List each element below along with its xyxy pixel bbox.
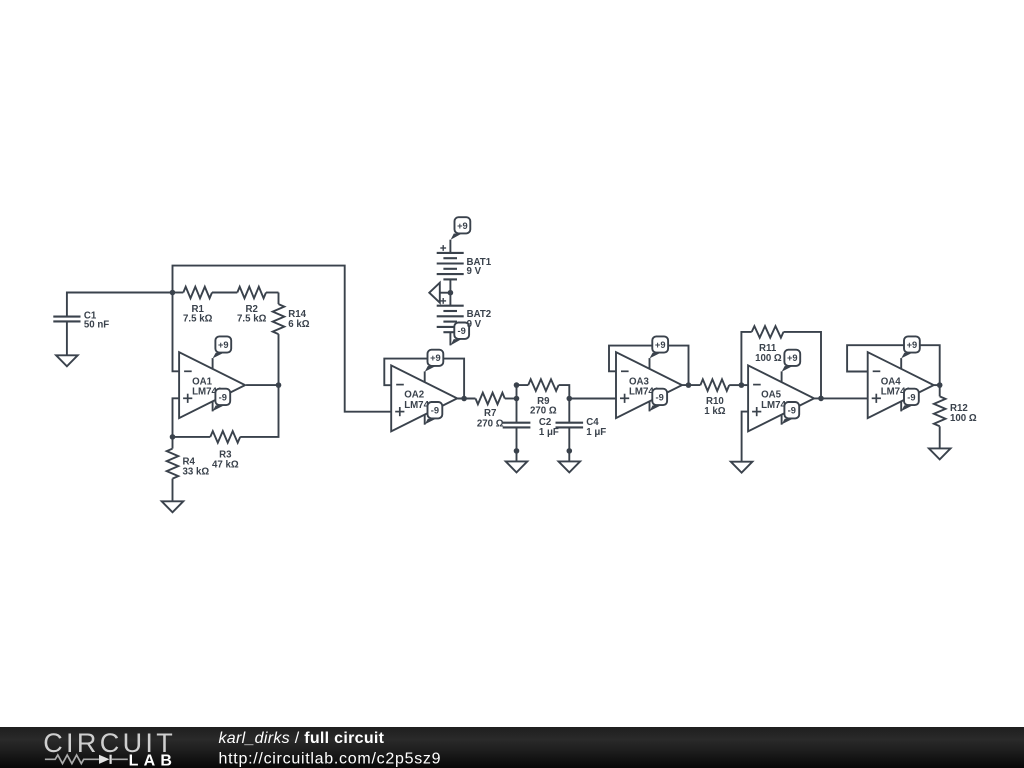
svg-text:1 kΩ: 1 kΩ: [704, 406, 725, 417]
resistor R9: [528, 379, 558, 391]
ground below C1: [56, 355, 78, 366]
net flag at battery mid node: [429, 283, 440, 303]
svg-text:7.5 kΩ: 7.5 kΩ: [237, 314, 267, 325]
footer bar: [0, 727, 1024, 768]
net flag +9 on OA3: [649, 358, 651, 369]
resistor R2: [237, 287, 266, 299]
ground below R12: [929, 448, 951, 459]
junction node OA2 out: [461, 396, 467, 402]
svg-text:1 μF: 1 μF: [539, 427, 559, 438]
junction node OA3 out: [686, 382, 692, 388]
wire node C to OA3 + input: [569, 398, 616, 400]
resistor R1: [173, 292, 184, 294]
capacitor C1: [53, 316, 80, 318]
svg-text:9 V: 9 V: [467, 319, 482, 330]
net flag -9 below BAT2: [451, 339, 462, 345]
resistor R7: [476, 393, 505, 405]
net flag -9 on OA2: [424, 415, 426, 425]
logo resistor-diode glyph: [45, 755, 99, 764]
svg-text:+9: +9: [907, 340, 918, 350]
svg-text:+9: +9: [655, 340, 666, 350]
op-amp OA3: [616, 352, 682, 418]
svg-text:+9: +9: [457, 221, 468, 231]
svg-text:100 Ω: 100 Ω: [950, 413, 977, 424]
resistor R14: [278, 293, 280, 305]
svg-text:+9: +9: [787, 353, 798, 363]
battery BAT2: [437, 305, 464, 307]
wire mid node to BAT2: [449, 293, 451, 306]
wire OA5 + input to ground: [742, 412, 749, 462]
op-amp OA2: [391, 365, 457, 431]
resistor R10: [700, 379, 729, 391]
resistor R3: [173, 436, 211, 438]
junction node C: [567, 396, 573, 402]
ground at OA5 + input: [731, 462, 753, 473]
wire OA1 output: [246, 384, 278, 386]
junction node C4 gnd: [567, 448, 573, 454]
junction node B riser corner: [514, 382, 520, 388]
svg-text:+9: +9: [430, 353, 441, 363]
net flag -9 on OA5: [781, 415, 783, 425]
op-amp OA1: [179, 352, 245, 418]
svg-text:+9: +9: [218, 340, 229, 350]
wire OA4 feedback loop: [847, 345, 940, 385]
wire OA2 feedback loop: [384, 359, 464, 399]
net flag +9 on OA4: [900, 358, 902, 369]
resistor R12: [939, 385, 941, 396]
svg-text:270 Ω: 270 Ω: [530, 406, 557, 417]
junction node B: [514, 396, 520, 402]
wire OA2 output: [457, 398, 475, 400]
capacitor C2: [516, 399, 518, 422]
wire OA3 output: [682, 384, 700, 386]
svg-text:9 V: 9 V: [467, 266, 482, 277]
svg-text:7.5 kΩ: 7.5 kΩ: [183, 314, 213, 325]
net flag +9 on OA2: [424, 371, 426, 382]
ground below R4: [162, 501, 184, 512]
junction node OA5 out: [818, 396, 824, 402]
junction node D: [170, 434, 176, 440]
junction node OA4 out: [937, 382, 943, 388]
wire OA4 output: [934, 384, 940, 386]
net flag -9 on OA1: [212, 401, 214, 411]
net flag -9 on OA3: [649, 401, 651, 411]
junction node battery mid: [448, 290, 454, 296]
svg-text:-9: -9: [656, 392, 664, 402]
svg-text:270 Ω: 270 Ω: [477, 418, 504, 429]
wire OA5 output to OA4 + input: [814, 397, 868, 399]
ground below C4: [559, 461, 581, 472]
battery BAT1: [437, 252, 464, 254]
resistor R4: [172, 437, 174, 449]
wire C1 to node A: [67, 293, 173, 316]
wire to OA5 - input: [741, 384, 748, 386]
wire OA3 feedback loop: [609, 346, 689, 386]
net flag +9 on OA5: [781, 371, 783, 382]
svg-text:-9: -9: [219, 392, 227, 402]
svg-text:50 nF: 50 nF: [84, 320, 109, 331]
wire node A over to OA2 + input: [173, 266, 392, 412]
svg-text:-9: -9: [431, 406, 439, 416]
svg-text:33 kΩ: 33 kΩ: [183, 467, 210, 478]
wire OA1 + input to node D: [173, 398, 180, 437]
ground below C2: [506, 461, 528, 472]
svg-text:LAB: LAB: [129, 752, 177, 768]
wire BAT1 to mid node: [449, 279, 451, 292]
svg-text:6 kΩ: 6 kΩ: [288, 319, 309, 330]
junction node OA1 out: [276, 382, 282, 388]
wire node B riser: [517, 385, 529, 398]
svg-text:100 Ω: 100 Ω: [755, 353, 782, 364]
net flag +9 on OA1: [212, 358, 214, 369]
junction node A: [170, 290, 176, 296]
svg-text:karl_dirks / full circuit: karl_dirks / full circuit: [219, 730, 385, 747]
net flag -9 on OA4: [900, 401, 902, 411]
wire BAT2 to -9 flag: [449, 332, 451, 345]
junction node C2 gnd: [514, 448, 520, 454]
svg-text:-9: -9: [907, 392, 915, 402]
svg-text:1 μF: 1 μF: [586, 427, 606, 438]
resistor R11: [741, 332, 751, 385]
wire +9 flag to BAT1: [449, 240, 451, 253]
net flag +9 above BAT1: [449, 239, 451, 241]
op-amp OA5: [748, 365, 814, 431]
svg-text:-9: -9: [458, 326, 466, 336]
op-amp OA4: [868, 352, 934, 418]
svg-text:-9: -9: [788, 406, 796, 416]
svg-text:http://circuitlab.com/c2p5sz9: http://circuitlab.com/c2p5sz9: [219, 751, 442, 768]
junction node R10/R11: [739, 382, 745, 388]
capacitor C4: [568, 399, 570, 422]
svg-text:47 kΩ: 47 kΩ: [212, 460, 239, 471]
wire node A down to OA1 - input: [173, 293, 180, 372]
